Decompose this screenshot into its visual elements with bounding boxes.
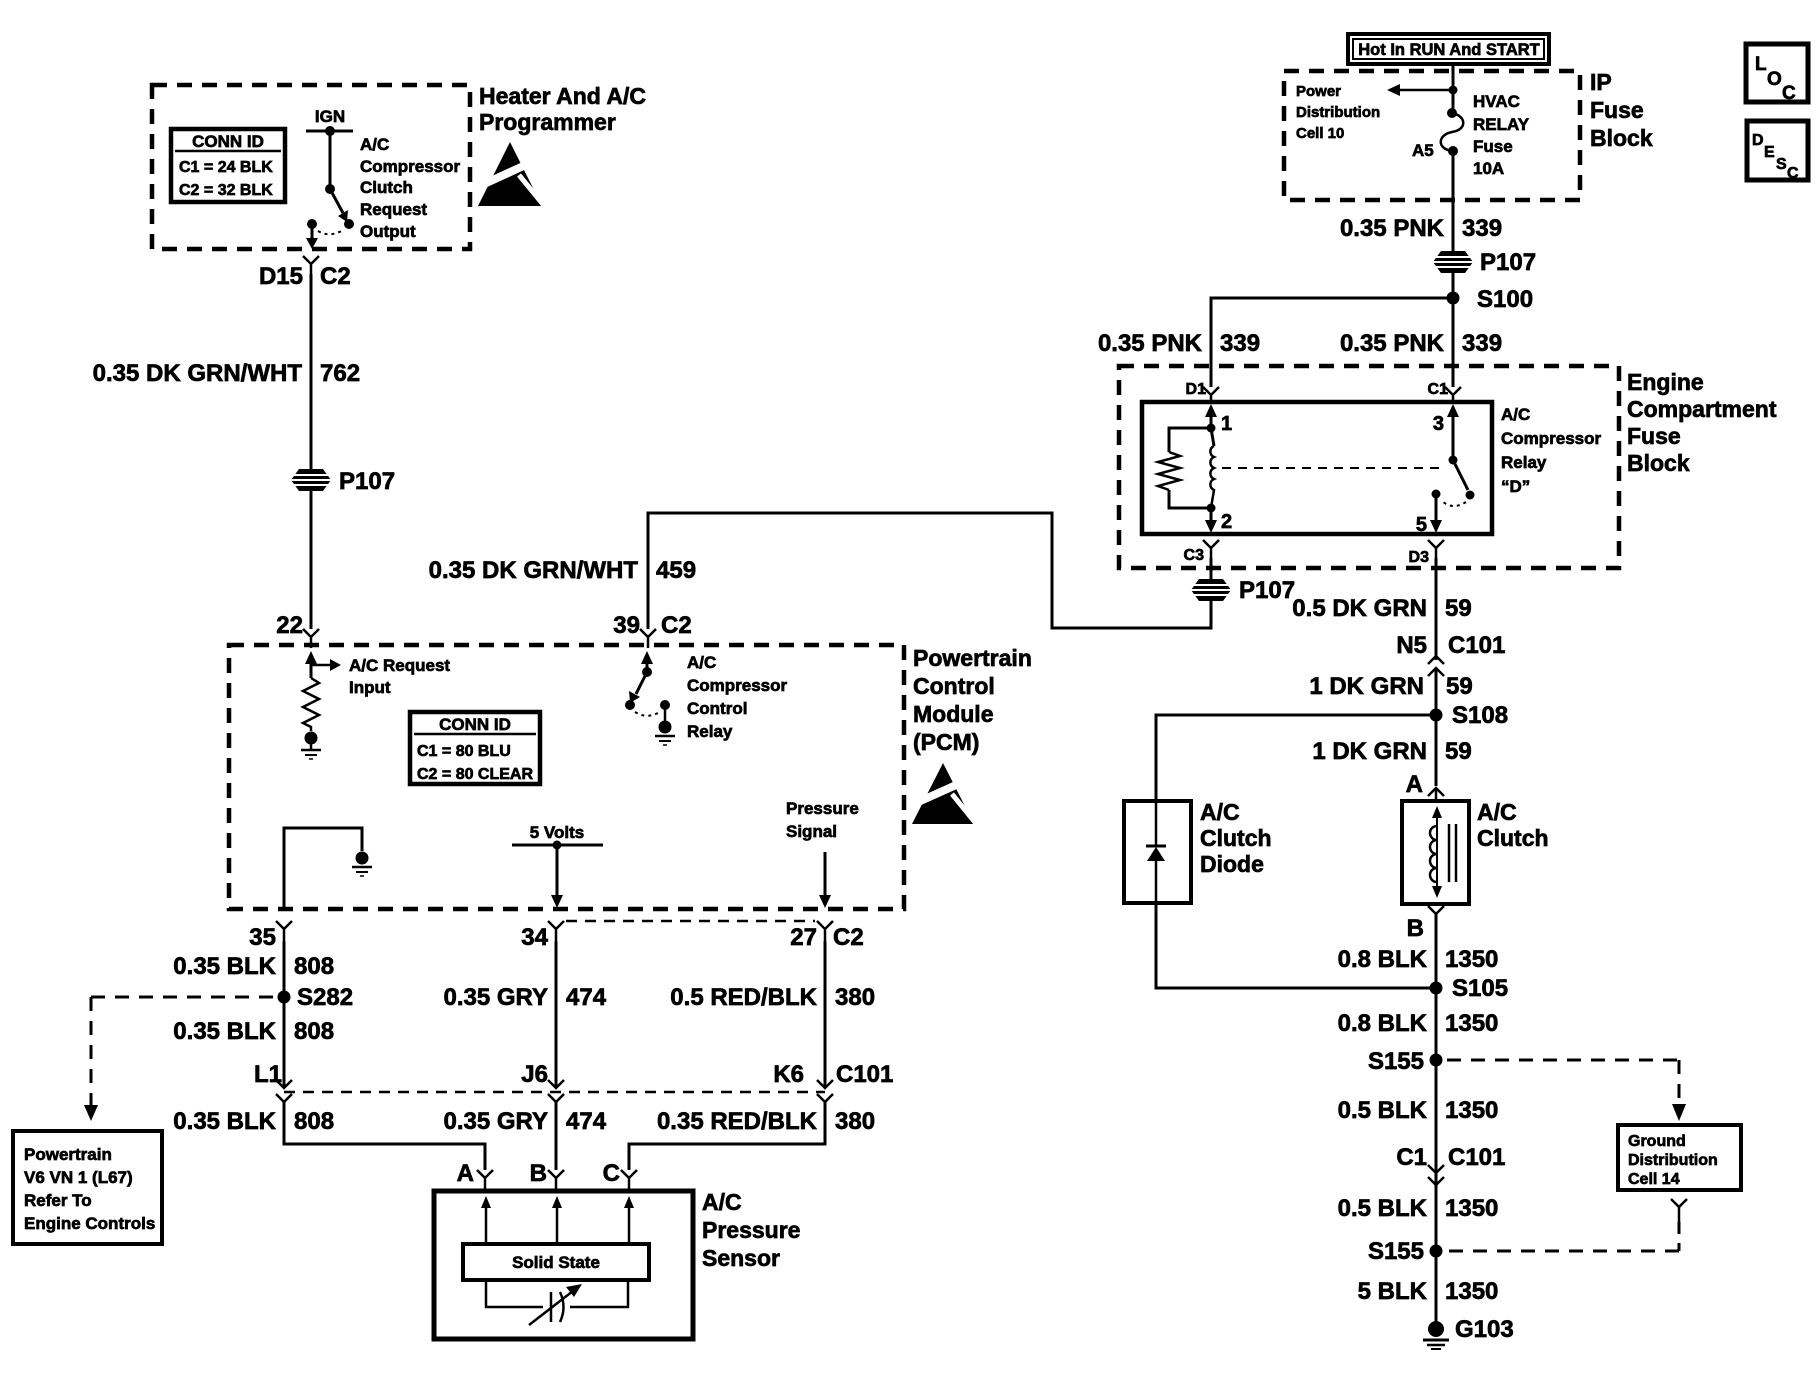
A/C Compressor Relay "D" box <box>1142 402 1492 534</box>
svg-text:Compressor: Compressor <box>1501 429 1602 448</box>
pin 34 connector <box>521 921 564 951</box>
svg-text:0.35 GRY: 0.35 GRY <box>444 1108 549 1135</box>
Powertrain V6 VN 1 (L67) reference box <box>13 1131 162 1244</box>
svg-text:V6 VN 1 (L67): V6 VN 1 (L67) <box>24 1168 133 1187</box>
sensor internal lead C <box>624 1196 634 1244</box>
wire 1350 B to G103 <box>1435 914 1438 1328</box>
Ground Distribution Cell 14 reference box <box>1618 1125 1741 1190</box>
splice S155 (upper) <box>1368 1048 1443 1075</box>
svg-text:762: 762 <box>320 360 360 387</box>
svg-text:C: C <box>1782 83 1796 104</box>
svg-text:E: E <box>1764 144 1775 161</box>
svg-text:C2: C2 <box>320 263 351 290</box>
svg-text:474: 474 <box>566 984 607 1011</box>
label A/C Request Input <box>349 656 450 697</box>
svg-text:D: D <box>1752 132 1764 149</box>
svg-text:0.8 BLK: 0.8 BLK <box>1338 1010 1428 1037</box>
svg-text:A/C: A/C <box>687 653 716 672</box>
svg-text:0.35 DK GRN/WHT: 0.35 DK GRN/WHT <box>429 557 639 584</box>
svg-text:0.5 DK GRN: 0.5 DK GRN <box>1292 595 1427 622</box>
connector N5 C101 <box>1396 632 1505 676</box>
A/C clutch request switch (programmer) <box>306 131 354 249</box>
label HVAC RELAY Fuse 10A <box>1473 92 1530 178</box>
relay actuation dashed link <box>1222 467 1446 469</box>
svg-text:5 BLK: 5 BLK <box>1358 1278 1428 1305</box>
svg-text:A: A <box>457 1160 474 1187</box>
wire 459 P107 to PCM pin 39 <box>648 513 1211 629</box>
sensor pin A <box>457 1160 493 1192</box>
LOC tab <box>1746 44 1808 104</box>
svg-text:0.35 RED/BLK: 0.35 RED/BLK <box>657 1108 818 1135</box>
resistor R (A/C request pull) <box>303 678 319 731</box>
svg-text:“D”: “D” <box>1501 477 1530 496</box>
svg-text:Heater And A/C: Heater And A/C <box>479 83 646 109</box>
svg-text:D1: D1 <box>1186 381 1207 398</box>
svg-text:C: C <box>1787 165 1799 182</box>
svg-text:B: B <box>1407 915 1424 942</box>
svg-text:808: 808 <box>294 953 334 980</box>
svg-text:22: 22 <box>276 612 303 639</box>
pin 22 arrow inside PCM <box>305 651 317 678</box>
sensor internal lead B <box>552 1196 562 1244</box>
svg-text:RELAY: RELAY <box>1473 115 1530 134</box>
ESD sensitive symbol (programmer) <box>478 142 542 206</box>
wire 762 from P107 to PCM pin 22 <box>310 491 313 629</box>
svg-text:S155: S155 <box>1368 1238 1424 1265</box>
IGN terminal <box>306 107 353 136</box>
svg-text:Block: Block <box>1590 125 1653 151</box>
sensor internal lead A <box>481 1196 491 1244</box>
svg-text:1: 1 <box>1221 413 1232 435</box>
svg-text:Distribution: Distribution <box>1628 1152 1718 1169</box>
Engine Compartment Fuse Block box <box>1119 366 1619 568</box>
svg-text:IGN: IGN <box>315 107 345 126</box>
connector C101 terminal K6 <box>773 1061 893 1102</box>
svg-text:5: 5 <box>1416 514 1427 536</box>
splice S155 (lower) <box>1368 1238 1443 1265</box>
connector C101 terminal L1 <box>254 1061 292 1102</box>
label 5 BLK 1350 <box>1358 1278 1499 1305</box>
label 0.35 BLK 808 (upper) <box>173 953 334 980</box>
ESD sensitive symbol (PCM) <box>912 763 974 824</box>
wire branch S105 to clutch diode <box>1156 903 1436 988</box>
ground (A/C request) <box>301 732 321 760</box>
svg-text:Programmer: Programmer <box>479 109 616 135</box>
clutch terminal A <box>1406 771 1444 801</box>
svg-text:Fuse: Fuse <box>1473 137 1513 156</box>
connector D3 <box>1409 540 1444 566</box>
pin 39 connector C2 <box>613 612 691 648</box>
sensor pin C <box>603 1160 637 1192</box>
svg-text:C2: C2 <box>833 924 864 951</box>
label 0.35 BLK 808 (below S282) <box>173 1018 334 1045</box>
svg-text:K6: K6 <box>773 1061 804 1088</box>
svg-text:380: 380 <box>835 984 875 1011</box>
label A/C Compressor Relay "D" <box>1501 405 1602 496</box>
svg-text:G103: G103 <box>1455 1316 1514 1343</box>
label Powertrain Control Module (PCM) <box>913 645 1032 755</box>
svg-text:Fuse: Fuse <box>1590 97 1644 123</box>
relay switch contacts <box>1432 456 1475 507</box>
ground G103 <box>1423 1316 1514 1349</box>
splice P107 (fuse block) <box>1191 577 1295 604</box>
svg-text:Distribution: Distribution <box>1296 104 1380 121</box>
label 1 DK GRN 59 (upper) <box>1309 673 1472 700</box>
svg-text:A/C: A/C <box>1200 799 1240 825</box>
pressure signal output <box>786 799 859 908</box>
clutch coil L <box>1430 806 1456 898</box>
svg-text:0.8 BLK: 0.8 BLK <box>1338 946 1428 973</box>
svg-text:0.35 GRY: 0.35 GRY <box>444 984 549 1011</box>
svg-text:C1 = 80 BLU: C1 = 80 BLU <box>417 743 511 760</box>
label 0.35 GRY 474 (lower) <box>444 1108 607 1135</box>
label Engine Compartment Fuse Block <box>1627 369 1777 476</box>
svg-text:Diode: Diode <box>1200 851 1264 877</box>
label 0.5 DK GRN 59 <box>1292 595 1471 622</box>
svg-text:CONN ID: CONN ID <box>192 132 264 151</box>
svg-text:59: 59 <box>1445 738 1472 765</box>
svg-text:N5: N5 <box>1396 632 1427 659</box>
wire 474 to sensor pin B <box>555 1102 558 1170</box>
label A/C Clutch <box>1477 799 1549 851</box>
clutch terminal B <box>1407 906 1444 942</box>
wire 59 C101 to S108 <box>1435 668 1438 786</box>
svg-text:474: 474 <box>566 1108 607 1135</box>
svg-text:IP: IP <box>1590 69 1612 95</box>
svg-text:Clutch: Clutch <box>360 178 413 197</box>
svg-text:0.5 BLK: 0.5 BLK <box>1338 1097 1428 1124</box>
svg-text:Fuse: Fuse <box>1627 423 1681 449</box>
label Heater And A/C Programmer <box>479 83 646 135</box>
svg-text:S108: S108 <box>1452 702 1508 729</box>
svg-text:Input: Input <box>349 678 391 697</box>
relay coil with parallel resistor <box>1158 424 1216 513</box>
CONN ID table C1=80 BLU C2=80 CLEAR <box>410 712 540 784</box>
label 1 DK GRN 59 (lower) <box>1312 738 1471 765</box>
svg-text:0.35 DK GRN/WHT: 0.35 DK GRN/WHT <box>93 360 303 387</box>
label 0.5 RED/BLK 380 (upper) <box>670 984 875 1011</box>
svg-text:C1: C1 <box>1428 381 1449 398</box>
svg-text:A/C: A/C <box>1477 799 1517 825</box>
label 0.35 DK GRN/WHT 459 <box>429 557 696 584</box>
svg-text:1350: 1350 <box>1445 1010 1498 1037</box>
5 Volts supply <box>512 823 603 908</box>
label 0.35 GRY 474 (upper) <box>444 984 607 1011</box>
svg-text:Pressure: Pressure <box>786 799 859 818</box>
relay pin 1 <box>1205 404 1232 435</box>
svg-text:Control: Control <box>913 673 995 699</box>
svg-text:A5: A5 <box>1412 141 1434 160</box>
svg-text:Cell 10: Cell 10 <box>1296 125 1344 142</box>
svg-text:C2 = 80 CLEAR: C2 = 80 CLEAR <box>417 766 533 783</box>
svg-text:A: A <box>1406 771 1423 798</box>
svg-text:339: 339 <box>1462 330 1502 357</box>
wire branch S108 to clutch diode <box>1156 715 1436 801</box>
svg-text:A/C: A/C <box>702 1189 742 1215</box>
svg-text:Clutch: Clutch <box>1200 825 1272 851</box>
svg-text:Compartment: Compartment <box>1627 396 1777 422</box>
svg-text:Hot In RUN And START: Hot In RUN And START <box>1358 41 1539 59</box>
internal ground wire from pin 35 <box>284 828 372 909</box>
svg-text:808: 808 <box>294 1108 334 1135</box>
connector C101 terminal J6 <box>521 1061 564 1102</box>
wire 339 P107 to C1 <box>1452 273 1455 387</box>
connector C2 dashed edge between pins 34 and 27 <box>566 920 815 923</box>
label 0.35 PNK 339 (top) <box>1340 215 1502 242</box>
A/C Clutch box <box>1402 801 1469 904</box>
svg-text:0.35 BLK: 0.35 BLK <box>173 1108 276 1135</box>
label A/C Compressor Control Relay <box>687 653 788 741</box>
svg-text:Control: Control <box>687 699 747 718</box>
svg-text:1350: 1350 <box>1445 946 1498 973</box>
svg-text:O: O <box>1767 69 1782 90</box>
splice S108 <box>1430 702 1509 729</box>
wire 380 to sensor pin C <box>629 1102 825 1170</box>
sensor pin B <box>530 1160 564 1192</box>
svg-text:Refer To: Refer To <box>24 1191 92 1210</box>
svg-text:Pressure: Pressure <box>702 1217 800 1243</box>
svg-text:1 DK GRN: 1 DK GRN <box>1312 738 1427 765</box>
svg-text:Sensor: Sensor <box>702 1245 780 1271</box>
svg-text:0.35 PNK: 0.35 PNK <box>1340 330 1445 357</box>
pin 27 connector C2 <box>790 921 863 951</box>
Hot In RUN And START feed label <box>1348 34 1549 64</box>
label 0.8 BLK 1350 (upper) <box>1338 946 1499 973</box>
svg-text:S100: S100 <box>1477 286 1533 313</box>
label 0.35 PNK 339 (left branch) <box>1098 330 1260 357</box>
svg-text:S105: S105 <box>1452 975 1508 1002</box>
splice S100 <box>1447 286 1534 313</box>
label 0.5 BLK 1350 (lower) <box>1338 1195 1499 1222</box>
splice S105 <box>1430 975 1509 1002</box>
svg-text:P107: P107 <box>1480 249 1536 276</box>
svg-text:C: C <box>603 1160 620 1187</box>
DESC tab <box>1747 121 1808 182</box>
svg-text:0.35 PNK: 0.35 PNK <box>1340 215 1445 242</box>
power distribution branch arrow <box>1387 84 1458 96</box>
svg-text:C101: C101 <box>1448 1144 1505 1171</box>
label Power Distribution Cell 10 <box>1296 83 1380 142</box>
svg-text:59: 59 <box>1445 595 1472 622</box>
wire 808 pin35 to L1 <box>283 941 286 1088</box>
wire 762 from D15 to P107 <box>310 274 313 469</box>
pin 39 arrow inside PCM <box>641 651 653 669</box>
svg-text:B: B <box>530 1160 547 1187</box>
connector C101 dashed edge <box>284 1091 825 1094</box>
svg-text:808: 808 <box>294 1018 334 1045</box>
label A/C Pressure Sensor <box>702 1189 800 1271</box>
svg-text:35: 35 <box>249 924 276 951</box>
svg-text:Signal: Signal <box>786 822 837 841</box>
connector D15 / C2 <box>259 256 351 290</box>
label A/C Clutch Diode <box>1200 799 1272 877</box>
svg-text:0.35 PNK: 0.35 PNK <box>1098 330 1203 357</box>
connector C1 C101 (lower) <box>1396 1144 1505 1185</box>
svg-text:Engine: Engine <box>1627 369 1704 395</box>
svg-text:J6: J6 <box>521 1061 548 1088</box>
svg-text:339: 339 <box>1462 215 1502 242</box>
svg-text:459: 459 <box>656 557 696 584</box>
A/C Pressure Sensor box <box>434 1191 693 1339</box>
dashed branch to Powertrain reference <box>84 997 275 1121</box>
svg-text:339: 339 <box>1220 330 1260 357</box>
svg-text:Engine Controls: Engine Controls <box>24 1214 155 1233</box>
svg-text:Block: Block <box>1627 450 1690 476</box>
Heater And A/C Programmer module box <box>152 85 470 249</box>
wire C3 to P107 <box>1210 558 1213 580</box>
svg-text:S282: S282 <box>297 984 353 1011</box>
svg-text:A/C: A/C <box>360 135 389 154</box>
Powertrain Control Module (PCM) box <box>229 645 904 909</box>
svg-text:0.35 BLK: 0.35 BLK <box>173 1018 276 1045</box>
svg-text:2: 2 <box>1221 511 1232 533</box>
diode CR (clutch diode) <box>1146 801 1166 903</box>
svg-text:Powertrain: Powertrain <box>24 1145 112 1164</box>
A/C request input arrow <box>311 659 341 671</box>
svg-text:Powertrain: Powertrain <box>913 645 1032 671</box>
svg-text:59: 59 <box>1446 673 1473 700</box>
IP Fuse Block box <box>1284 71 1580 200</box>
svg-text:1350: 1350 <box>1445 1278 1498 1305</box>
splice P107 (left) <box>291 468 395 495</box>
svg-text:Compressor: Compressor <box>360 157 461 176</box>
svg-text:Power: Power <box>1296 83 1341 100</box>
svg-text:3: 3 <box>1433 413 1444 435</box>
svg-text:CONN ID: CONN ID <box>439 715 511 734</box>
label 0.35 PNK 339 (right branch) <box>1340 330 1502 357</box>
relay pin 2 <box>1205 508 1232 533</box>
svg-text:C1 = 24 BLK: C1 = 24 BLK <box>179 159 273 176</box>
Solid State block <box>463 1244 649 1280</box>
svg-text:D15: D15 <box>259 263 303 290</box>
connector C1 (relay) <box>1428 381 1461 403</box>
connector C3 <box>1184 540 1219 564</box>
svg-text:Ground: Ground <box>1628 1133 1686 1150</box>
svg-text:C101: C101 <box>836 1061 893 1088</box>
svg-text:C1: C1 <box>1396 1144 1427 1171</box>
svg-text:A/C Request: A/C Request <box>349 656 450 675</box>
relay pin 5 <box>1416 494 1442 536</box>
svg-text:C2 = 32 BLK: C2 = 32 BLK <box>179 182 273 199</box>
svg-text:P107: P107 <box>1239 577 1295 604</box>
svg-text:10A: 10A <box>1473 159 1504 178</box>
wire from hot feed into fuse <box>1452 64 1455 113</box>
svg-text:C3: C3 <box>1184 547 1205 564</box>
label A/C Compressor Clutch Request Output <box>360 135 461 241</box>
A/C compressor control relay switch (PCM) <box>625 667 675 745</box>
wire 59 D3 to C101 <box>1435 558 1438 660</box>
label IP Fuse Block <box>1590 69 1653 151</box>
pin 35 connector <box>249 921 292 951</box>
svg-text:0.5 BLK: 0.5 BLK <box>1338 1195 1428 1222</box>
label 0.35 DK GRN/WHT 762 <box>93 360 360 387</box>
splice P107 (top right) <box>1433 249 1536 276</box>
svg-text:1 DK GRN: 1 DK GRN <box>1309 673 1424 700</box>
fuse HVAC RELAY 10A <box>1441 108 1464 156</box>
svg-text:27: 27 <box>790 924 817 951</box>
svg-text:34: 34 <box>521 924 548 951</box>
svg-text:HVAC: HVAC <box>1473 92 1520 111</box>
svg-text:0.5 RED/BLK: 0.5 RED/BLK <box>670 984 817 1011</box>
svg-text:Compressor: Compressor <box>687 676 788 695</box>
svg-text:Solid State: Solid State <box>512 1253 600 1272</box>
wire 339 fuse to P107 <box>1452 151 1455 251</box>
label 0.35 BLK 808 (lower) <box>173 1108 334 1135</box>
svg-text:C2: C2 <box>661 612 692 639</box>
relay pin 3 <box>1433 404 1459 456</box>
svg-text:Relay: Relay <box>1501 453 1547 472</box>
svg-text:Cell 14: Cell 14 <box>1628 1171 1680 1188</box>
svg-text:0.35 BLK: 0.35 BLK <box>173 953 276 980</box>
svg-text:D3: D3 <box>1409 549 1430 566</box>
svg-text:L: L <box>1755 54 1767 75</box>
svg-text:39: 39 <box>613 612 640 639</box>
svg-text:Request: Request <box>360 200 427 219</box>
svg-text:Output: Output <box>360 222 416 241</box>
svg-text:380: 380 <box>835 1108 875 1135</box>
svg-text:Relay: Relay <box>687 722 733 741</box>
pin 22 connector <box>276 612 319 648</box>
svg-text:S: S <box>1776 156 1787 173</box>
splice S282 <box>278 984 354 1011</box>
wire 380 pin27 to K6 <box>824 941 827 1088</box>
svg-text:1350: 1350 <box>1445 1097 1498 1124</box>
svg-text:A/C: A/C <box>1501 405 1530 424</box>
wire 474 pin34 to J6 <box>555 941 558 1088</box>
label 0.8 BLK 1350 (lower) <box>1338 1010 1499 1037</box>
A/C Clutch Diode box <box>1124 801 1191 903</box>
svg-text:Clutch: Clutch <box>1477 825 1549 851</box>
dashed return ground distribution to S155 <box>1447 1199 1687 1251</box>
svg-text:5 Volts: 5 Volts <box>530 823 584 842</box>
label 0.35 RED/BLK 380 (lower) <box>657 1108 875 1135</box>
svg-text:P107: P107 <box>339 468 395 495</box>
wire branch S100 to D1 <box>1211 298 1453 387</box>
wire 808 to sensor pin A <box>284 1102 485 1170</box>
svg-text:C101: C101 <box>1448 632 1505 659</box>
svg-text:1350: 1350 <box>1445 1195 1498 1222</box>
svg-text:S155: S155 <box>1368 1048 1424 1075</box>
connector D1 <box>1186 381 1219 403</box>
svg-text:L1: L1 <box>254 1061 282 1088</box>
svg-text:Module: Module <box>913 701 994 727</box>
CONN ID table C1=24 BLK C2=32 BLK <box>171 129 285 202</box>
svg-text:(PCM): (PCM) <box>913 729 979 755</box>
label 0.5 BLK 1350 (upper) <box>1338 1097 1499 1124</box>
variable capacitive element <box>486 1280 628 1325</box>
dashed branch S155 to ground distribution <box>1447 1060 1686 1121</box>
